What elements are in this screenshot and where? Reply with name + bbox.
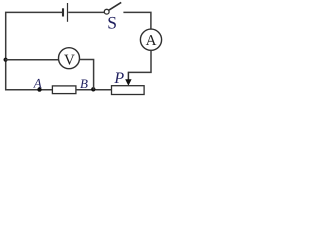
svg-text:A: A [146, 33, 157, 49]
bottom wire: left corner to resistor [5, 89, 53, 91]
rheostat body R2 [112, 86, 145, 95]
voltmeter V1 circle [59, 48, 80, 69]
battery (long thin positive plate) [67, 3, 69, 22]
svg-text:B: B [80, 76, 88, 91]
switch S pivot circle [104, 9, 109, 14]
svg-text:P: P [113, 70, 124, 87]
switch blade (open) [109, 2, 121, 10]
svg-text:A: A [33, 76, 42, 91]
battery (short thick negative plate) [62, 8, 64, 16]
resistor R1 body (between A and B) [52, 86, 76, 94]
bottom wire: resistor to rheostat [76, 89, 112, 91]
wire: left vertical + top segment to battery [6, 12, 62, 90]
wire: voltmeter branch right, down to node B [79, 60, 93, 90]
rheostat wiper arrowhead [125, 79, 131, 86]
wire: ammeter down and left to wiper [128, 50, 151, 72]
junction node on left wire [4, 58, 8, 62]
wire: voltmeter branch left [5, 59, 59, 61]
node A dot [37, 87, 41, 91]
wire: switch to top-right corner, down to ammeter [123, 12, 150, 29]
ammeter A1 circle [140, 29, 161, 50]
svg-text:S: S [107, 12, 117, 32]
svg-text:V: V [64, 52, 75, 68]
wire: battery to switch [68, 11, 104, 13]
node B dot [91, 87, 95, 91]
rheostat wiper stem [127, 72, 129, 81]
